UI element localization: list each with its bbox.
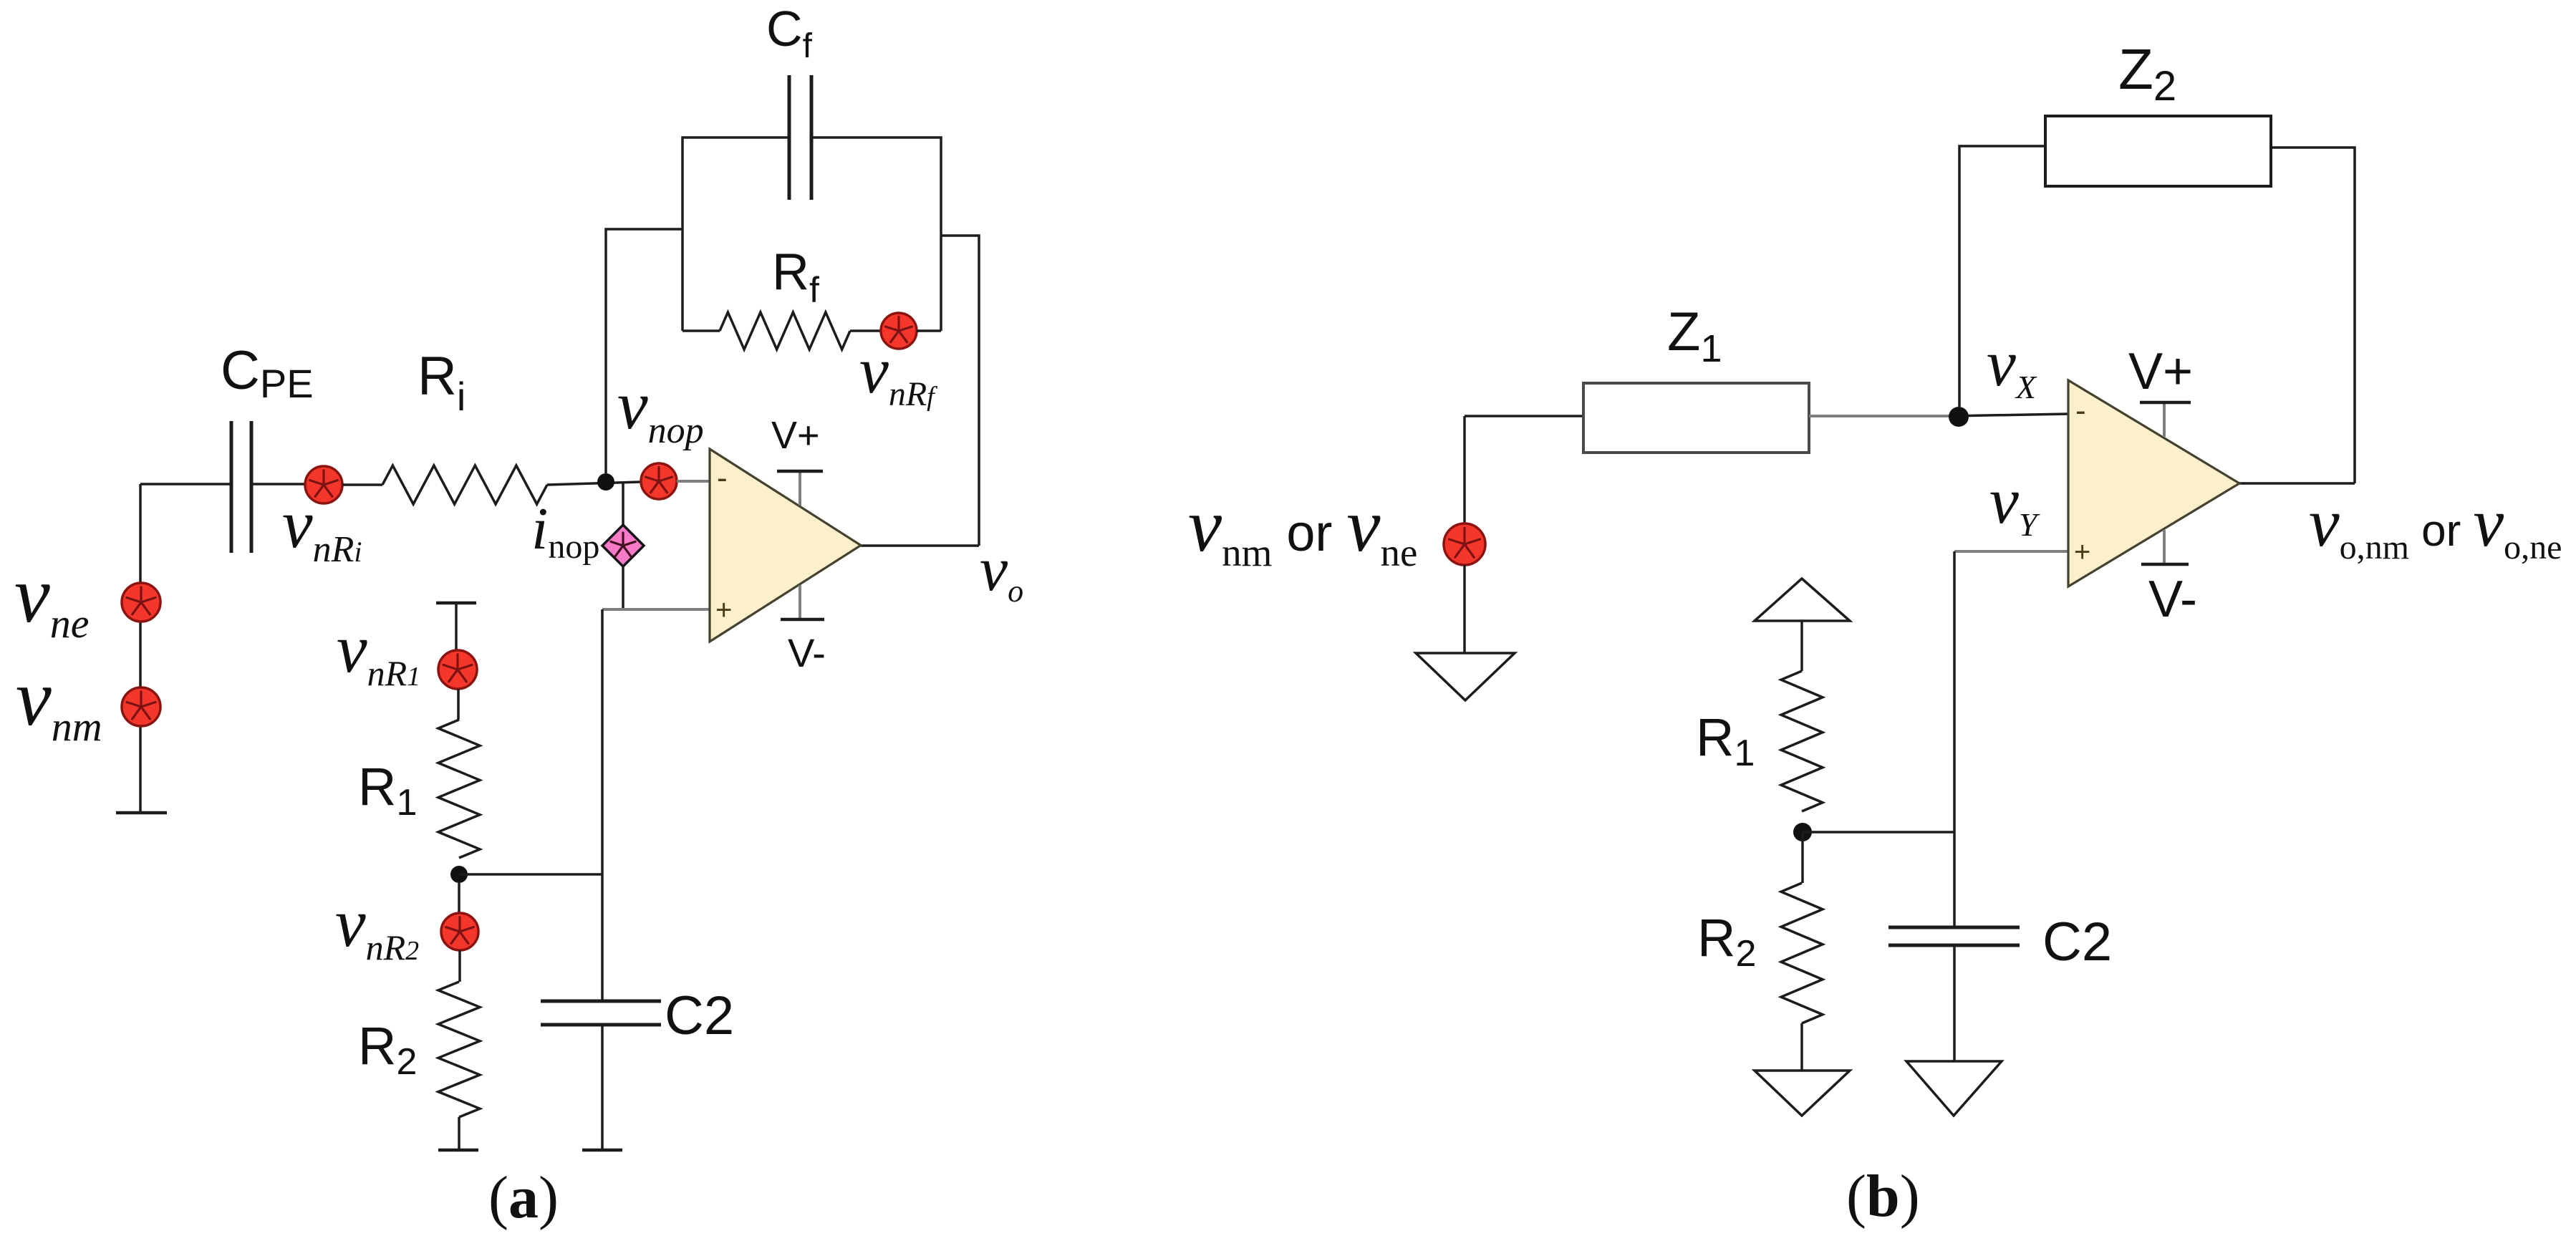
svg-text:C2: C2 <box>2042 912 2112 972</box>
svg-text:-: - <box>2075 393 2086 428</box>
svg-text:(a): (a) <box>488 1164 559 1231</box>
svg-text:C2: C2 <box>665 985 734 1046</box>
svg-text:+: + <box>715 594 732 626</box>
svg-text:(b): (b) <box>1846 1163 1920 1230</box>
svg-text:V+: V+ <box>2128 343 2193 400</box>
svg-text:V-: V- <box>788 630 826 675</box>
svg-text:V-: V- <box>2148 571 2197 628</box>
svg-text:+: + <box>2074 536 2090 568</box>
svg-text:V+: V+ <box>771 414 820 457</box>
svg-text:-: - <box>717 460 728 496</box>
